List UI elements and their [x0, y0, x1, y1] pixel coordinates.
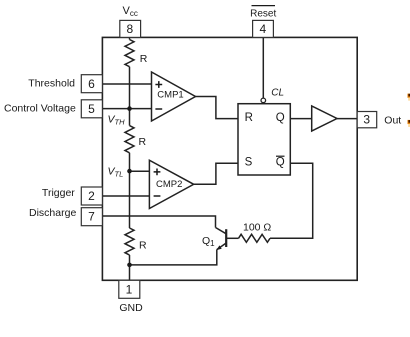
wire: divider top lead from pin 8 — [129, 37, 131, 39]
flip-flop Qbar output label — [276, 156, 285, 168]
svg-text:Q: Q — [276, 112, 285, 124]
wire: node VTL to CMP2 + input — [130, 170, 150, 172]
svg-text:R: R — [139, 136, 147, 148]
buffer output driver triangle — [312, 106, 337, 131]
transistor Q1 base bar — [225, 229, 227, 247]
wire: node VTL to R3 — [129, 171, 131, 228]
resistor R3 (bottom divider R) — [125, 228, 134, 255]
wire: Q1 emitter to ground node — [130, 250, 217, 265]
node VTH junction dot — [127, 106, 132, 111]
pin 6 box — [81, 75, 102, 93]
resistor R2 (middle divider R) — [125, 126, 134, 153]
resistor R1 (top divider R) — [125, 40, 134, 67]
wire: Reset pin 4 to CL bubble — [262, 37, 264, 98]
svg-text:Out: Out — [384, 115, 401, 127]
pin 8 box — [120, 20, 141, 37]
svg-text:7: 7 — [88, 210, 95, 224]
svg-text:GND: GND — [119, 302, 143, 314]
wire: 100 ohm resistor to Q1 base — [226, 237, 238, 239]
svg-text:Trigger: Trigger — [42, 187, 75, 199]
svg-text:100 Ω: 100 Ω — [243, 222, 271, 234]
CMP1 minus input symbol — [155, 108, 162, 110]
wire: R2 to node VTL — [129, 153, 131, 171]
svg-text:1: 1 — [126, 282, 133, 296]
wire: CMP2 output to flip-flop S input — [194, 163, 238, 184]
transistor Q1 emitter diagonal — [217, 243, 226, 250]
svg-text:S: S — [245, 157, 253, 169]
wire: flip-flop Q output to buffer — [290, 118, 311, 120]
CMP2 plus input symbol — [154, 169, 161, 176]
svg-text:2: 2 — [88, 189, 95, 203]
svg-text:Control Voltage: Control Voltage — [4, 103, 76, 115]
wire: R3 to ground node and pin 1 — [129, 255, 131, 280]
wire: R1 to node VTH — [129, 67, 131, 109]
op-amp CMP1 triangle — [152, 72, 196, 121]
svg-text:Reset: Reset — [250, 9, 276, 20]
transistor Q1 collector diagonal — [216, 228, 227, 234]
svg-text:6: 6 — [88, 77, 95, 91]
svg-text:Discharge: Discharge — [29, 207, 76, 219]
pin 7 box — [81, 208, 102, 226]
pin 4 box — [253, 20, 274, 37]
svg-text:5: 5 — [88, 102, 95, 116]
wire: node VTH to R2 — [129, 109, 131, 126]
orange bullet fragment top — [408, 94, 410, 101]
wire: Discharge pin 7 to Q1 collector — [102, 216, 216, 228]
ground node junction dot — [127, 263, 132, 268]
op-amp CMP2 triangle — [149, 160, 193, 208]
svg-text:R: R — [139, 239, 147, 251]
CMP1 plus input symbol — [155, 81, 162, 88]
svg-text:CL: CL — [271, 87, 284, 98]
svg-text:CMP1: CMP1 — [157, 90, 183, 101]
wire: buffer output to Out pin 3 — [337, 118, 357, 120]
wire: Threshold pin 6 to CMP1 + input — [102, 83, 152, 85]
svg-text:4: 4 — [259, 22, 266, 36]
pin 5 box — [81, 100, 102, 118]
pin 3 box — [357, 112, 377, 128]
svg-text:8: 8 — [127, 22, 134, 36]
resistor R4 100 ohm — [239, 234, 271, 242]
wire: CMP1 output to flip-flop R input — [196, 97, 239, 119]
node VTL junction dot — [127, 169, 132, 174]
svg-text:CMP2: CMP2 — [156, 179, 182, 190]
wire: Trigger pin 2 to CMP2 - input — [102, 195, 150, 197]
orange bullet fragment bottom — [408, 120, 410, 127]
transistor Q1 emitter arrowhead — [216, 245, 222, 250]
wire: Control Voltage pin 5 to node VTH to CMP1 - input — [102, 108, 152, 110]
pin 2 box — [81, 187, 102, 205]
svg-text:Threshold: Threshold — [28, 77, 75, 89]
IC boundary box — [102, 37, 357, 280]
flip-flop latch box — [238, 104, 290, 175]
svg-text:R: R — [245, 112, 253, 124]
CL bubble on flip-flop — [261, 98, 266, 103]
CMP2 minus input symbol — [154, 195, 161, 197]
svg-text:Q: Q — [276, 157, 285, 169]
pin 1 box — [119, 280, 140, 298]
label Reset (active low) — [250, 6, 276, 20]
wire: flip-flop Qbar output to 100 ohm resistor — [270, 163, 313, 238]
svg-text:3: 3 — [363, 113, 370, 127]
svg-text:R: R — [140, 53, 148, 65]
